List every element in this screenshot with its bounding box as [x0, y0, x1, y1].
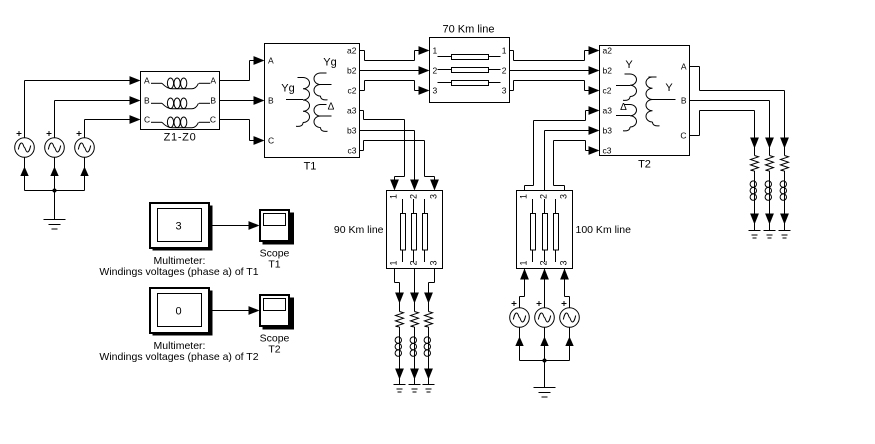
- wire Multimeter 1 to Scope T1: [210, 225, 250, 227]
- svg-text:2: 2: [409, 260, 419, 265]
- 90Km line phase 1 symbol: [402, 199, 404, 214]
- block Scope T2: [260, 295, 289, 326]
- svg-text:Y: Y: [665, 82, 673, 94]
- wire load 2 to ground: [414, 356, 416, 380]
- svg-text:1: 1: [502, 46, 507, 56]
- wire T1 b2 to 70Km line port 2: [360, 70, 420, 72]
- wire Vs2 bottom stub: [54, 157, 56, 190]
- T2 primary winding 1 (Y): [625, 73, 631, 75]
- 100Km line phase 3 symbol: [555, 199, 557, 214]
- ground (right load 3): [779, 230, 791, 232]
- svg-text:Δ: Δ: [328, 102, 335, 113]
- AC voltage source Vb2 (bottom): [535, 308, 555, 328]
- wire 90Km line port 1 bottom to load: [394, 269, 396, 283]
- wire T2 A to load Ra: [690, 66, 700, 68]
- wire load 1 to ground: [399, 356, 401, 380]
- AC voltage source Vs1 (left): [15, 138, 35, 158]
- svg-text:a3: a3: [603, 106, 613, 116]
- wire 70Km line port3 to T2 c2: [510, 90, 514, 92]
- svg-text:Yg: Yg: [281, 83, 294, 95]
- wire Vb2 to 100Km line port 2: [540, 269, 549, 280]
- svg-text:B: B: [210, 96, 216, 106]
- svg-text:A: A: [210, 76, 216, 86]
- block Multimeter 2 shadow: [153, 291, 213, 336]
- T2 primary winding 2 (Delta): [625, 104, 631, 106]
- AC voltage source Vb3 (bottom): [560, 308, 580, 328]
- block 90 Km line outline: [387, 191, 443, 269]
- wire T1 a3 to 90Km line port 1: [360, 110, 364, 112]
- svg-text:2: 2: [539, 260, 549, 265]
- svg-text:90 Km line: 90 Km line: [334, 224, 384, 236]
- block 100 Km line outline: [517, 191, 573, 269]
- svg-text:2: 2: [539, 194, 549, 199]
- 70Km line phase 1 symbol: [438, 56, 452, 58]
- svg-text:b2: b2: [603, 66, 613, 76]
- ground (90Km load 2): [409, 384, 421, 386]
- ground (90Km load 1): [394, 384, 406, 386]
- wire 100Km line port1 to T2 a3: [524, 186, 526, 191]
- inductor L2 (right load phase): [769, 171, 771, 181]
- block Scope T1: [260, 210, 289, 241]
- svg-text:C: C: [144, 115, 150, 125]
- 90Km line phase 2 symbol: [413, 199, 415, 214]
- ground (right load 1): [749, 230, 761, 232]
- resistor R1 (right load phase): [754, 149, 756, 156]
- svg-text:a2: a2: [347, 46, 357, 56]
- wire T2 C to load Rc: [690, 135, 700, 137]
- wire Vb1 to 100Km line port 1: [520, 269, 529, 280]
- svg-text:c2: c2: [348, 86, 357, 96]
- wire load 3 to ground: [428, 356, 430, 380]
- wire right load 2 to ground: [769, 200, 771, 225]
- T1 secondary winding 1 (Yg): [321, 72, 327, 74]
- T1 secondary winding 2 (Delta): [321, 104, 327, 106]
- svg-text:A: A: [268, 56, 274, 66]
- ground (right load 2): [764, 230, 776, 232]
- svg-text:70 Km line: 70 Km line: [443, 24, 495, 36]
- svg-text:3: 3: [433, 86, 438, 96]
- transformer T2 block outline: [600, 46, 690, 156]
- wire Vs3 bottom stub: [84, 157, 86, 190]
- block 70 Km line outline: [430, 38, 510, 103]
- wire Vb2 bottom stub: [544, 327, 546, 360]
- wire Z1-Z0 A to T1 A: [220, 80, 250, 82]
- svg-text:1: 1: [433, 46, 438, 56]
- svg-text:3: 3: [559, 194, 569, 199]
- svg-text:c2: c2: [603, 86, 612, 96]
- svg-text:C: C: [210, 115, 216, 125]
- resistor R93 (90Km load): [428, 304, 430, 312]
- svg-text:C: C: [268, 136, 274, 146]
- wire Z1-Z0 C to T1 C: [220, 119, 250, 121]
- svg-text:Windings voltages (phase a) of: Windings voltages (phase a) of T1: [99, 266, 258, 278]
- AC voltage source Vs2 (left): [45, 138, 65, 158]
- svg-text:Y: Y: [625, 59, 633, 71]
- T2 secondary winding (Y): [649, 76, 657, 78]
- block Z1-Z0 (three-phase series impedance): [141, 72, 220, 130]
- wire Vb1 bottom stub: [519, 327, 521, 360]
- svg-text:Δ: Δ: [620, 102, 627, 113]
- ground (bottom sources): [534, 387, 556, 389]
- svg-text:3: 3: [429, 260, 439, 265]
- Z1-Z0 inductor row C: [151, 121, 162, 123]
- wire Z1-Z0 B to T1 B: [220, 100, 255, 102]
- node bottom sources neutral junction: [543, 359, 547, 363]
- svg-text:a2: a2: [603, 46, 613, 56]
- svg-text:A: A: [144, 76, 150, 86]
- block Multimeter 1 shadow: [153, 206, 213, 251]
- svg-text:Z1-Z0: Z1-Z0: [164, 132, 197, 144]
- wire Vs2 to Z1-Z0 port B: [54, 101, 56, 138]
- block Scope T1 shadow: [263, 213, 295, 245]
- svg-text:3: 3: [502, 86, 507, 96]
- svg-text:1: 1: [519, 194, 529, 199]
- wire T1 a2 to 70Km line port 1: [360, 50, 365, 52]
- wire T2 B to load Rb: [690, 100, 770, 102]
- svg-text:0: 0: [175, 306, 181, 318]
- inductor L3 (right load phase): [784, 171, 786, 181]
- node left sources neutral junction: [53, 189, 57, 193]
- svg-text:3: 3: [429, 194, 439, 199]
- inductor L91 (90Km load): [399, 327, 401, 337]
- wire Vb3 to 100Km line port 3: [560, 269, 569, 280]
- svg-text:1: 1: [389, 260, 399, 265]
- 70Km line phase 2 symbol: [438, 69, 452, 71]
- Z1-Z0 inductor row B: [151, 102, 162, 104]
- wire right load 1 to ground: [754, 200, 756, 225]
- wire 100Km line port2 to T2 b3: [544, 131, 546, 191]
- wire 70Km line port1 to T2 a2: [510, 50, 514, 52]
- T1 primary winding (Yg): [298, 77, 304, 79]
- 100Km line phase 1 symbol: [532, 199, 534, 214]
- AC voltage source Vb1 (bottom): [510, 308, 530, 328]
- svg-text:Windings voltages (phase a) of: Windings voltages (phase a) of T2: [99, 351, 258, 363]
- resistor R91 (90Km load): [399, 304, 401, 312]
- svg-text:b2: b2: [347, 66, 357, 76]
- wire right load 3 to ground: [784, 200, 786, 225]
- wire 70Km line port2 to T2 b2: [510, 70, 590, 72]
- svg-text:2: 2: [433, 66, 438, 76]
- svg-text:a3: a3: [347, 106, 357, 116]
- svg-text:2: 2: [409, 194, 419, 199]
- wire T1 c2 to 70Km line port 3: [360, 90, 365, 92]
- resistor R92 (90Km load): [414, 304, 416, 312]
- wire Vb3 bottom stub: [569, 327, 571, 360]
- inductor L1 (right load phase): [754, 171, 756, 181]
- svg-text:A: A: [681, 62, 687, 72]
- resistor R2 (right load phase): [769, 149, 771, 156]
- svg-text:B: B: [268, 96, 274, 106]
- wire Vs1 to Z1-Z0 port A: [24, 81, 26, 138]
- 90Km line phase 3 symbol: [424, 199, 426, 214]
- wire T1 c3 to 90Km line port 3: [360, 150, 364, 152]
- block Multimeter 2: [150, 288, 209, 333]
- wire Vs1 bottom stub: [24, 157, 26, 190]
- wire rail to ground: [54, 191, 56, 220]
- svg-text:b3: b3: [603, 126, 613, 136]
- wire left source common rail: [25, 190, 85, 192]
- wire Multimeter 2 to Scope T2: [210, 310, 250, 312]
- svg-text:b3: b3: [347, 126, 357, 136]
- svg-text:100 Km line: 100 Km line: [576, 224, 632, 236]
- svg-text:1: 1: [519, 260, 529, 265]
- 70Km line phase 3 symbol: [438, 82, 452, 84]
- wire 100Km line port3 to T2 c3: [564, 186, 566, 191]
- wire rail to ground (bottom): [544, 361, 546, 388]
- ground (left sources): [44, 219, 66, 221]
- svg-text:T2: T2: [638, 159, 651, 171]
- AC voltage source Vs3 (left): [75, 138, 95, 158]
- ground (90Km load 3): [423, 384, 435, 386]
- inductor L92 (90Km load): [414, 327, 416, 337]
- svg-text:3: 3: [175, 221, 181, 233]
- wire T1 b3 to 90Km line port 2: [360, 130, 415, 132]
- Z1-Z0 inductor row A: [151, 82, 162, 84]
- svg-text:B: B: [681, 96, 687, 106]
- svg-text:2: 2: [502, 66, 507, 76]
- svg-text:c3: c3: [603, 146, 612, 156]
- transformer T1 block outline: [265, 44, 360, 158]
- svg-text:T2: T2: [268, 344, 280, 356]
- svg-text:C: C: [680, 131, 686, 141]
- inductor L93 (90Km load): [428, 327, 430, 337]
- wire bottom source common rail: [520, 360, 570, 362]
- svg-text:c3: c3: [348, 146, 357, 156]
- svg-text:T1: T1: [268, 259, 280, 271]
- wire 90Km line port 3 bottom to load: [434, 269, 436, 283]
- svg-text:3: 3: [559, 260, 569, 265]
- svg-text:Yg: Yg: [323, 57, 336, 69]
- svg-text:T1: T1: [304, 161, 317, 173]
- wire 90Km line port 2 bottom to load: [414, 269, 416, 304]
- resistor R3 (right load phase): [784, 149, 786, 156]
- svg-text:B: B: [144, 96, 150, 106]
- wire Vs3 to Z1-Z0 port C: [84, 120, 86, 138]
- block Multimeter 1: [150, 203, 209, 248]
- block Scope T2 shadow: [263, 298, 295, 330]
- 100Km line phase 2 symbol: [544, 199, 546, 214]
- svg-text:1: 1: [389, 194, 399, 199]
